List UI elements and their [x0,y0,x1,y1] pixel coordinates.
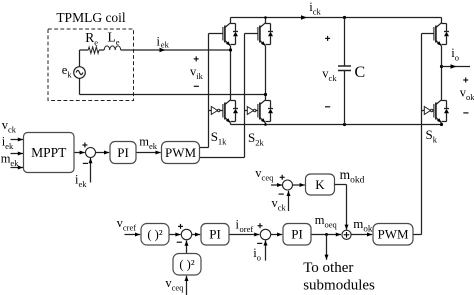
svg-text:PWM: PWM [165,145,197,160]
svg-text:PI: PI [291,227,303,242]
svg-text:PI: PI [117,145,129,160]
svg-text:PI: PI [209,227,221,242]
svg-text:( )²: ( )² [179,258,194,272]
svg-text:C: C [355,64,366,81]
svg-text:TPMLG coil: TPMLG coil [56,10,126,25]
svg-text:K: K [315,177,325,192]
svg-text:PWM: PWM [377,227,409,242]
svg-text:( )²: ( )² [147,228,162,242]
svg-text:submodules: submodules [303,277,375,293]
svg-text:MPPT: MPPT [31,145,67,160]
svg-text:To other: To other [303,260,353,276]
